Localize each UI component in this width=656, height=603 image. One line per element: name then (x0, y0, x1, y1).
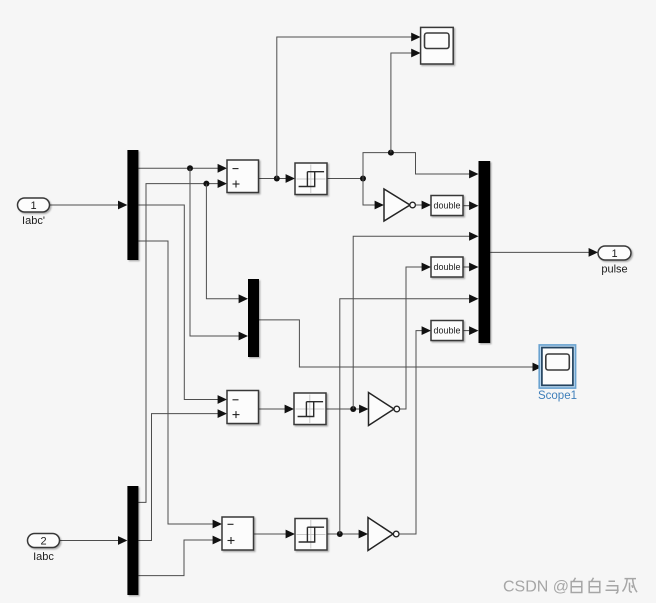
wire relay Relay3 out to NOT gate Not3 (327, 530, 368, 539)
wire node F1 up to mux M3 in3 (353, 232, 478, 409)
svg-text:pulse: pulse (601, 264, 627, 276)
NOT gate Not2 (369, 393, 400, 426)
mux M3 (479, 161, 491, 343)
svg-text:2: 2 (40, 536, 46, 548)
wire double1 out to mux M3 in2 (463, 201, 479, 210)
svg-text:double: double (433, 262, 460, 272)
data type conversion double1 (431, 196, 463, 216)
NOT gate Not3 (368, 518, 399, 551)
wire inport2 to demux D2 (60, 536, 128, 545)
wire mux M3 out to outport pulse (490, 248, 598, 257)
watermark chinese glyph bai 2 (589, 578, 600, 593)
wire node A1 branch to mux M2 in2 (190, 168, 248, 340)
data type conversion double2 (431, 257, 463, 277)
junction dot node D1 (360, 176, 366, 182)
svg-text:double: double (433, 201, 460, 211)
junction dot node G1 (337, 531, 343, 537)
svg-text:1: 1 (611, 248, 617, 260)
wire NOT gate Not1 out to double1 (414, 201, 431, 210)
svg-text:Iabc: Iabc (33, 551, 54, 563)
wire node G1 up to mux M3 in5 (340, 294, 479, 534)
wire inport1 to demux D1 (50, 201, 128, 210)
wire relay Relay2 out to NOT gate Not2 (326, 405, 369, 414)
wire NOT gate Not3 out to double3 (399, 326, 431, 534)
wire node C1 branch to scope in1 (277, 33, 421, 179)
watermark CSDN (503, 579, 569, 596)
wire demux D2 out1 up to sum Sum1 plus (138, 179, 227, 502)
wire demux D2 out2 to sum Sum2 plus (138, 409, 227, 540)
sum Sum2 (227, 391, 259, 424)
sum Sum3 (222, 517, 254, 550)
wire demux D1 out2 to sum Sum2 minus (138, 205, 227, 404)
wire node D1 down to NOT gate Not1 (363, 179, 384, 210)
wire node D1 up to mux M3 in1 (363, 153, 479, 179)
junction dot node B1 (203, 181, 209, 187)
mux M2 (248, 279, 259, 357)
demux D2 (127, 486, 138, 595)
watermark chinese glyph bai 1 (571, 578, 582, 593)
junction dot node E1 (388, 150, 394, 156)
wire demux D1 out3 to sum Sum3 minus (138, 241, 222, 528)
relay Relay3 (295, 519, 327, 551)
wire sum Sum1 out to relay Relay1 (259, 174, 296, 183)
watermark chinese glyph yu (606, 581, 619, 593)
junction dot node C1 (274, 176, 280, 182)
inport 2 Iabc (28, 534, 60, 564)
scope Scope (421, 27, 454, 64)
svg-text:CSDN @: CSDN @ (503, 579, 569, 596)
NOT gate Not1 (384, 189, 415, 221)
wire relay Relay1 out to node D1 (327, 178, 363, 180)
outport 1 pulse (598, 246, 631, 276)
svg-text:double: double (433, 326, 460, 336)
demux D1 (127, 150, 138, 260)
watermark chinese glyph gua (623, 579, 638, 593)
wire NOT gate Not2 out to double2 (400, 263, 431, 409)
inport 1 Iabc' (18, 198, 50, 227)
relay Relay1 (295, 163, 327, 195)
wire sum Sum2 out to relay Relay2 (259, 405, 295, 414)
scope Scope1 selected (538, 345, 577, 402)
junction dot node F1 (350, 406, 356, 412)
svg-text:1: 1 (30, 200, 36, 212)
wire demux D2 out3 to sum Sum3 plus (138, 536, 222, 576)
wire node B1 branch to mux M2 in1 (206, 184, 248, 304)
wire double3 out to mux M3 in6 (463, 326, 479, 335)
junction dot node A1 (187, 165, 193, 171)
wire demux D1 out1 to sum Sum1 minus (138, 164, 227, 173)
wire node E1 up to scope in2 (391, 49, 421, 153)
svg-text:Iabc': Iabc' (22, 215, 45, 227)
wire mux M2 out to scope Scope1 (259, 320, 542, 372)
data type conversion double3 (431, 321, 463, 341)
relay Relay2 (294, 393, 326, 425)
wire sum Sum3 out to relay Relay3 (254, 530, 296, 539)
svg-text:Scope1: Scope1 (538, 390, 577, 402)
wire double2 out to mux M3 in4 (463, 263, 479, 272)
sum Sum1 (227, 160, 259, 193)
